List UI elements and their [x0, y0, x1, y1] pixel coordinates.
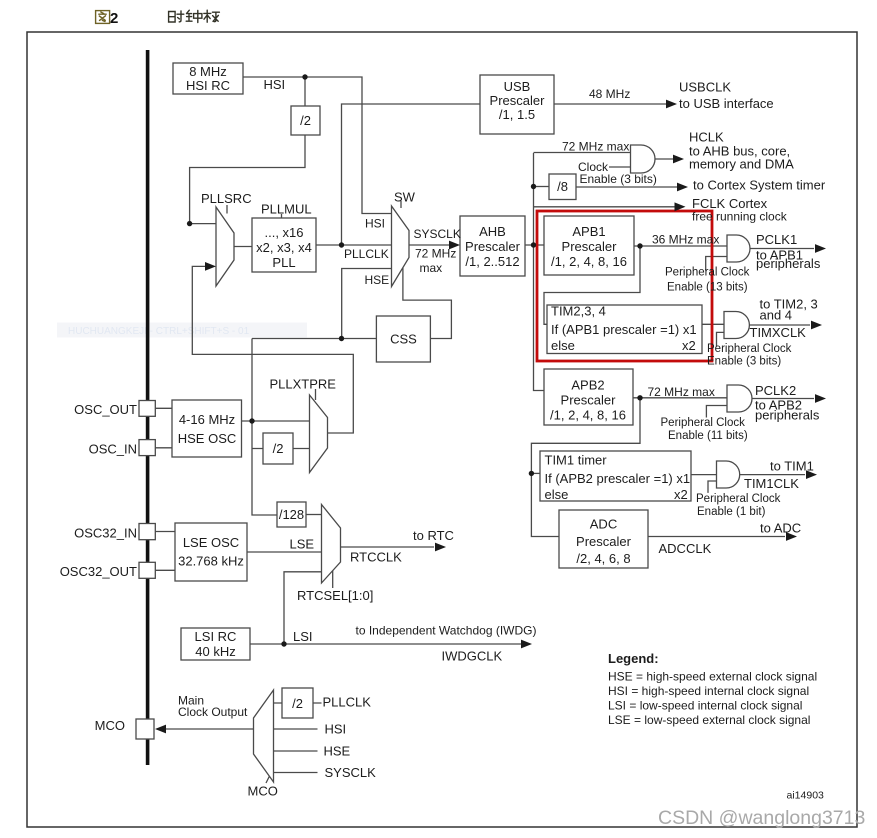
svg-text:LSE: LSE [290, 537, 315, 552]
svg-text:Prescaler: Prescaler [561, 393, 617, 408]
svg-text:peripherals: peripherals [756, 256, 821, 271]
svg-text:Enable (3 bits): Enable (3 bits) [707, 356, 781, 368]
svg-text:RTCCLK: RTCCLK [350, 550, 402, 565]
svg-text:Prescaler: Prescaler [576, 534, 632, 549]
svg-text:APB2: APB2 [571, 378, 604, 393]
svg-text:HSE OSC: HSE OSC [178, 431, 237, 446]
svg-text:free running clock: free running clock [692, 210, 788, 224]
svg-text:/2: /2 [300, 113, 311, 128]
svg-text:x2, x3, x4: x2, x3, x4 [256, 240, 312, 255]
svg-text:Enable (13 bits): Enable (13 bits) [667, 282, 748, 294]
svg-text:USB: USB [504, 79, 531, 94]
svg-text:else: else [551, 338, 575, 353]
svg-text:TIM1CLK: TIM1CLK [744, 476, 799, 491]
svg-text:Enable (3 bits): Enable (3 bits) [580, 172, 657, 186]
svg-text:/8: /8 [557, 179, 568, 194]
svg-text:Enable (11 bits): Enable (11 bits) [668, 430, 748, 442]
svg-text:RTCSEL[1:0]: RTCSEL[1:0] [297, 588, 373, 603]
svg-text:ADCCLK: ADCCLK [659, 541, 712, 556]
svg-text:HSI: HSI [365, 217, 385, 231]
svg-text:/1, 1.5: /1, 1.5 [499, 107, 535, 122]
svg-text:ADC: ADC [590, 517, 617, 532]
svg-text:LSE = low-speed external clock: LSE = low-speed external clock signal [608, 713, 810, 727]
svg-text:/2, 4, 6, 8: /2, 4, 6, 8 [576, 551, 630, 566]
svg-text:8 MHz: 8 MHz [189, 64, 227, 79]
svg-text:HSI: HSI [325, 722, 347, 737]
svg-text:Peripheral Clock: Peripheral Clock [665, 267, 750, 279]
svg-text:If (APB1 prescaler =1) x1: If (APB1 prescaler =1) x1 [551, 322, 697, 337]
svg-text:Prescaler: Prescaler [562, 239, 618, 254]
svg-text:x2: x2 [682, 338, 696, 353]
svg-text:USBCLK: USBCLK [679, 80, 731, 95]
svg-text:to ADC: to ADC [760, 521, 801, 536]
svg-text:to TIM1: to TIM1 [770, 459, 814, 474]
svg-text:and 4: and 4 [760, 308, 793, 323]
svg-text:else: else [545, 487, 569, 502]
svg-text:If (APB2 prescaler =1) x1: If (APB2 prescaler =1) x1 [545, 471, 691, 486]
svg-text:HSI = high-speed internal cloc: HSI = high-speed internal clock signal [608, 684, 809, 698]
svg-text:32.768 kHz: 32.768 kHz [178, 554, 244, 569]
svg-text:OSC_OUT: OSC_OUT [74, 402, 137, 417]
svg-text:Peripheral Clock: Peripheral Clock [707, 343, 792, 355]
svg-text:TIM1 timer: TIM1 timer [545, 453, 608, 468]
svg-text:CSDN @wanglong3713: CSDN @wanglong3713 [658, 807, 865, 829]
svg-text:TIMXCLK: TIMXCLK [750, 325, 807, 340]
svg-text:Peripheral Clock: Peripheral Clock [661, 417, 746, 429]
svg-text:SW: SW [394, 190, 416, 205]
svg-text:/128: /128 [279, 507, 304, 522]
svg-text:OSC32_OUT: OSC32_OUT [60, 564, 137, 579]
svg-text:CSS: CSS [390, 332, 417, 347]
svg-text:/2: /2 [292, 696, 303, 711]
svg-text:SYSCLK: SYSCLK [325, 765, 377, 780]
svg-text:Prescaler: Prescaler [465, 239, 521, 254]
svg-text:PLL: PLL [272, 255, 295, 270]
svg-text:HSE = high-speed external cloc: HSE = high-speed external clock signal [608, 670, 817, 684]
svg-text:LSI RC: LSI RC [195, 629, 237, 644]
svg-text:HSE: HSE [324, 744, 351, 759]
svg-text:Clock Output: Clock Output [178, 705, 248, 719]
svg-text:PLLXTPRE: PLLXTPRE [270, 377, 337, 392]
svg-text:MCO: MCO [248, 784, 278, 799]
svg-text:OSC_IN: OSC_IN [89, 442, 137, 457]
svg-text:72 MHz: 72 MHz [415, 247, 456, 261]
svg-text:PLLMUL: PLLMUL [261, 202, 312, 217]
svg-text:PLLCLK: PLLCLK [323, 695, 372, 710]
svg-text:LSI = low-speed internal clock: LSI = low-speed internal clock signal [608, 699, 802, 713]
svg-text:HCLK: HCLK [689, 130, 724, 145]
svg-text:ai14903: ai14903 [787, 790, 825, 802]
svg-text:Prescaler: Prescaler [490, 93, 546, 108]
svg-text:to Cortex System timer: to Cortex System timer [693, 178, 826, 193]
svg-text:AHB: AHB [479, 224, 506, 239]
svg-text:..., x16: ..., x16 [264, 225, 303, 240]
svg-text:PLLCLK: PLLCLK [344, 247, 389, 261]
svg-text:to USB interface: to USB interface [679, 96, 774, 111]
svg-text:IWDGCLK: IWDGCLK [442, 649, 503, 664]
svg-text:36 MHz max: 36 MHz max [652, 233, 719, 247]
svg-text:memory and DMA: memory and DMA [689, 157, 794, 172]
svg-text:Enable (1 bit): Enable (1 bit) [697, 506, 766, 518]
svg-text:/2: /2 [273, 441, 284, 456]
svg-text:/1, 2..512: /1, 2..512 [465, 254, 519, 269]
svg-text:LSE OSC: LSE OSC [183, 535, 239, 550]
svg-text:2: 2 [110, 10, 118, 27]
svg-text:SYSCLK: SYSCLK [414, 227, 461, 241]
svg-text:4-16 MHz: 4-16 MHz [179, 412, 235, 427]
svg-text:HUCHUANGKEJI - CTRL+SHIFT+S -: HUCHUANGKEJI - CTRL+SHIFT+S - 01 [68, 326, 250, 337]
svg-text:TIM2,3, 4: TIM2,3, 4 [551, 304, 606, 319]
svg-text:HSE: HSE [365, 273, 390, 287]
svg-text:PCLK2: PCLK2 [755, 383, 796, 398]
svg-text:PCLK1: PCLK1 [756, 232, 797, 247]
svg-text:LSI: LSI [293, 629, 313, 644]
svg-text:40 kHz: 40 kHz [195, 644, 235, 659]
svg-text:OSC32_IN: OSC32_IN [74, 526, 137, 541]
svg-text:peripherals: peripherals [755, 408, 820, 423]
svg-text:72 MHz max: 72 MHz max [648, 385, 715, 399]
svg-text:Peripheral Clock: Peripheral Clock [696, 493, 781, 505]
svg-text:to RTC: to RTC [413, 528, 454, 543]
svg-text:x2: x2 [674, 487, 688, 502]
svg-text:APB1: APB1 [572, 224, 605, 239]
svg-text:HSI: HSI [264, 77, 286, 92]
svg-text:to Independent Watchdog (IWDG): to Independent Watchdog (IWDG) [356, 624, 537, 638]
svg-text:/1, 2, 4, 8, 16: /1, 2, 4, 8, 16 [550, 408, 626, 423]
svg-text:max: max [420, 261, 443, 275]
svg-text:MCO: MCO [95, 718, 125, 733]
svg-text:/1, 2, 4, 8, 16: /1, 2, 4, 8, 16 [551, 254, 627, 269]
svg-text:48 MHz: 48 MHz [589, 87, 630, 101]
svg-text:HSI RC: HSI RC [186, 78, 230, 93]
svg-text:72 MHz max: 72 MHz max [562, 140, 629, 154]
svg-text:PLLSRC: PLLSRC [201, 191, 252, 206]
svg-text:Legend:: Legend: [608, 651, 659, 666]
